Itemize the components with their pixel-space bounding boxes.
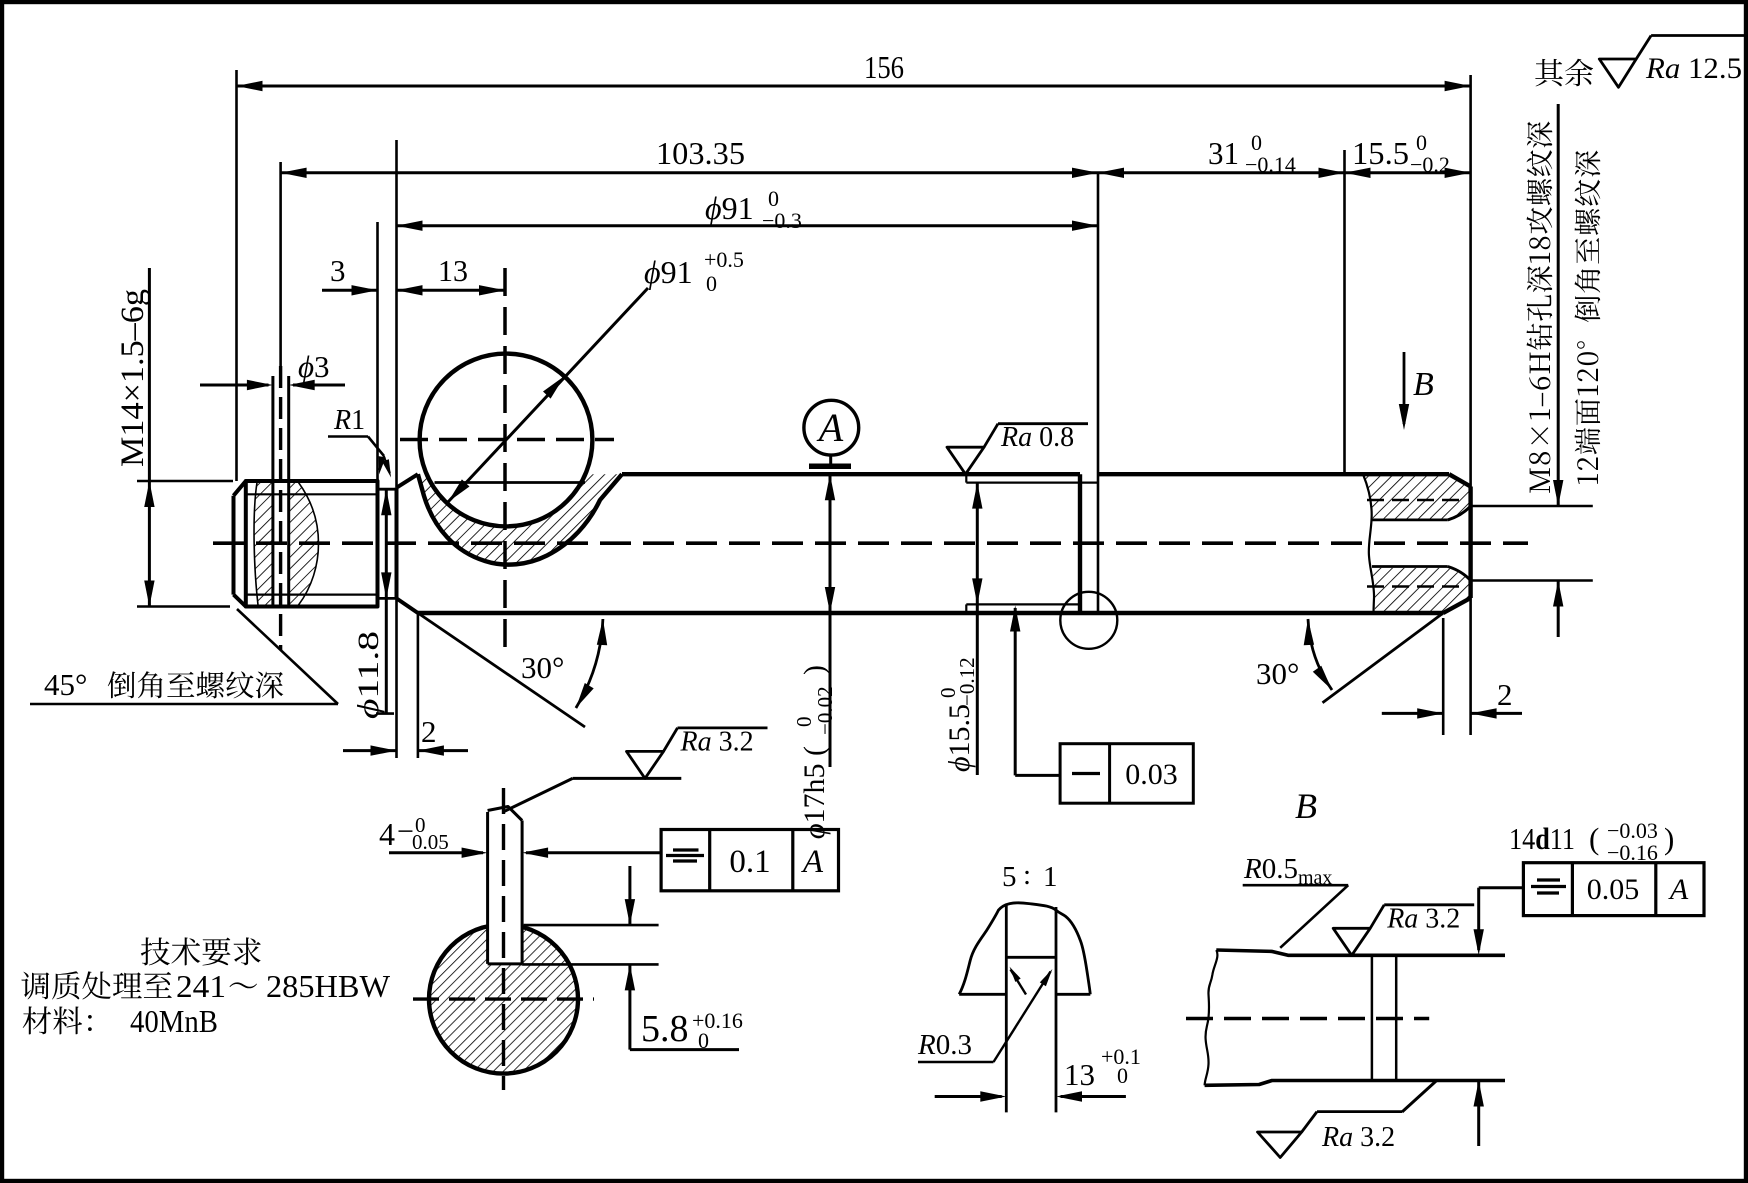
svg-text:14d11: 14d11	[1509, 821, 1575, 856]
pin slot top point	[488, 807, 522, 821]
surface Ra3.2 B top	[1333, 928, 1370, 955]
svg-text:5: 5	[1002, 861, 1017, 893]
svg-text:0.05: 0.05	[412, 830, 449, 854]
thread local section hatch right	[289, 483, 319, 606]
detail groove bottom	[1006, 956, 1056, 959]
countersink curve top	[1448, 506, 1471, 520]
countersink curve bottom	[1448, 567, 1471, 581]
M8 drill hole lines	[1372, 519, 1448, 522]
ball circle phi91	[420, 354, 593, 527]
svg-text:): )	[1664, 821, 1674, 856]
M8 section hatch top	[1364, 476, 1470, 519]
groove right wall / extension line 31	[1097, 173, 1100, 613]
svg-text:Ra 3.2: Ra 3.2	[1321, 1122, 1395, 1153]
leader straightness	[1015, 774, 1060, 777]
dim 12 countersink vertical	[1557, 104, 1560, 506]
dim 15.5 -0.2	[1345, 171, 1471, 174]
text tech requirements title	[141, 937, 261, 965]
M8 section hatch bottom	[1373, 568, 1469, 612]
ext lines dim 2 right	[1442, 618, 1445, 735]
svg-text:): )	[798, 665, 831, 675]
dim phi17h5	[829, 474, 832, 767]
pin detail horizontal centerline	[413, 997, 594, 1000]
note M8x1-6H vertical	[1527, 122, 1553, 493]
svg-text:A: A	[816, 405, 844, 450]
phi3 cross hole edges	[271, 376, 274, 607]
countersink ext lines	[1471, 505, 1593, 508]
dim 5.8 +0.16	[524, 924, 659, 927]
pin slot white	[488, 918, 521, 963]
phi3 hole centerline	[279, 366, 282, 650]
B view bottom edge	[1205, 1081, 1505, 1086]
view arrow B	[1403, 352, 1406, 424]
ext line phi3 center up	[279, 162, 282, 366]
dim phi15.5 -0.12	[976, 483, 979, 775]
30deg arc right	[1308, 619, 1332, 690]
shaft top edge left	[622, 472, 1080, 476]
svg-text:5.8: 5.8	[641, 1008, 689, 1050]
svg-text:B: B	[1413, 366, 1434, 403]
svg-text:Ra 0.8: Ra 0.8	[1000, 422, 1074, 453]
svg-text:0.03: 0.03	[1125, 758, 1178, 791]
svg-text:30°: 30°	[521, 650, 564, 685]
svg-text:2: 2	[421, 714, 437, 749]
svg-text:+0.5: +0.5	[704, 247, 744, 272]
ext lines dim 2 left	[395, 598, 398, 758]
svg-text:A: A	[1668, 873, 1689, 906]
pin detail vertical centerline	[502, 788, 505, 1090]
svg-text:Ra 12.5: Ra 12.5	[1645, 52, 1742, 85]
dim 14d11	[1477, 888, 1480, 950]
notch profile	[418, 474, 622, 564]
ext line thread end up	[376, 222, 379, 489]
detail mound bottom edges	[959, 993, 1006, 996]
shaft centerline	[213, 541, 1528, 545]
svg-text:−0.02: −0.02	[813, 686, 837, 735]
svg-text:3: 3	[330, 253, 346, 288]
relief groove	[378, 488, 397, 491]
seal section thin top line	[966, 482, 1098, 484]
symmetry frame 0.1 A	[661, 830, 838, 891]
shaft bottom edge	[418, 611, 1443, 615]
svg-text:40MnB: 40MnB	[130, 1003, 218, 1039]
svg-text:A: A	[801, 844, 824, 880]
svg-text:13: 13	[438, 253, 468, 288]
B view groove lines	[1371, 955, 1374, 1080]
detail balloon circle	[1060, 592, 1117, 649]
svg-text:ϕ91: ϕ91	[705, 190, 754, 226]
svg-text:1: 1	[1043, 861, 1058, 893]
svg-text:45°: 45°	[44, 667, 87, 702]
ball vertical centerline	[503, 268, 507, 658]
svg-text:ϕ11.8: ϕ11.8	[352, 631, 385, 719]
surface Ra3.2 pin	[503, 778, 573, 812]
leader phi91 +0.5	[448, 288, 648, 502]
svg-text:B: B	[1295, 786, 1317, 826]
svg-text:M14×1.5–6g: M14×1.5–6g	[115, 289, 151, 467]
svg-text:ϕ3: ϕ3	[298, 349, 330, 384]
ext line 156 left	[235, 70, 238, 481]
svg-text:Ra 3.2: Ra 3.2	[1386, 903, 1460, 934]
svg-text:156: 156	[864, 49, 904, 85]
pin section circle hatched	[429, 925, 578, 1074]
svg-text:Ra 3.2: Ra 3.2	[680, 726, 754, 757]
svg-text:0.05: 0.05	[1587, 873, 1640, 906]
dim 2 right	[1382, 712, 1443, 715]
thread minor diameter lines	[246, 493, 378, 495]
ext line right face up	[1469, 75, 1472, 487]
svg-text:(: (	[1589, 821, 1599, 856]
others roughness Ra12.5	[1535, 59, 1593, 87]
shoulder chamfer slopes	[397, 474, 418, 488]
detail groove walls	[1005, 905, 1008, 1112]
leader 45 chamfer	[237, 609, 338, 704]
pin slot walls	[486, 812, 489, 964]
svg-text:241: 241	[176, 968, 226, 1004]
surface Ra0.8	[947, 447, 984, 474]
svg-text:ϕ17h5 (: ϕ17h5 (	[798, 746, 831, 839]
notch back rim line	[435, 481, 586, 484]
dim phi91 -0.3	[397, 224, 1099, 227]
svg-text:30°: 30°	[1256, 656, 1299, 691]
B view centerline	[1186, 1017, 1429, 1020]
svg-text:−0.2: −0.2	[1410, 152, 1450, 177]
dim 4 -0.05	[389, 851, 483, 854]
seal section thin bottom line	[966, 603, 1080, 605]
svg-text:0.1: 0.1	[729, 844, 770, 880]
text material	[23, 1006, 92, 1034]
thread local section hatch left	[254, 483, 273, 606]
ext line shoulder up	[395, 140, 398, 488]
dim M14x1.5-6g	[137, 480, 233, 483]
end chamfer top	[1449, 474, 1471, 486]
end chamfer bottom	[1443, 598, 1470, 613]
dim 13 +0.1	[935, 1095, 1002, 1098]
dim 2 left	[343, 749, 397, 752]
svg-text:0: 0	[706, 271, 717, 296]
svg-text:0: 0	[698, 1028, 709, 1053]
svg-text:13: 13	[1064, 1057, 1095, 1092]
svg-text:4: 4	[379, 816, 395, 852]
30deg arc left	[576, 619, 603, 708]
svg-text:15.5: 15.5	[1352, 135, 1409, 171]
dim 3	[322, 289, 378, 292]
svg-text:−0.14: −0.14	[1245, 152, 1296, 177]
dim 103.35	[281, 171, 1098, 174]
B view top edge	[1216, 950, 1505, 955]
svg-text::: :	[1023, 859, 1031, 891]
30deg construction line left	[418, 613, 585, 727]
dim 31 -0.14	[1098, 171, 1345, 174]
straightness frame 0.03	[1060, 744, 1193, 804]
svg-text:−0.12: −0.12	[955, 657, 979, 706]
dim 156	[237, 85, 1471, 88]
ball seat notch hatch	[418, 474, 622, 564]
shaft end face	[1468, 487, 1472, 599]
svg-text:103.35: 103.35	[656, 135, 745, 171]
break line wavy	[1363, 474, 1374, 613]
surface Ra3.2 B bottom	[1402, 1081, 1436, 1112]
note 12 end face vertical	[1575, 151, 1601, 485]
symmetry frame 0.05 A	[1479, 886, 1524, 889]
svg-text:R0.3: R0.3	[917, 1029, 972, 1061]
svg-text:−0.3: −0.3	[762, 208, 802, 233]
svg-text:R1: R1	[333, 405, 365, 436]
svg-text:2: 2	[1497, 677, 1513, 712]
shaft top edge right	[1098, 472, 1449, 476]
svg-text:285HBW: 285HBW	[266, 968, 391, 1004]
30deg construction line right	[1323, 613, 1444, 703]
svg-text:ϕ15.5: ϕ15.5	[943, 704, 976, 772]
dim 13	[397, 289, 506, 292]
ball horizontal centerline	[400, 438, 614, 442]
dim phi3	[200, 384, 269, 387]
svg-text:ϕ91: ϕ91	[644, 254, 693, 290]
datum A symbol	[809, 464, 851, 470]
B view break line	[1205, 950, 1218, 1085]
svg-text:31: 31	[1208, 135, 1239, 171]
groove left wall	[1078, 474, 1082, 613]
dim phi11.8	[385, 489, 388, 713]
M8 thread depth dashed lines	[1367, 499, 1463, 502]
pin slot bottom	[488, 962, 522, 965]
ext line 15.5 step	[1343, 150, 1346, 474]
thread outline	[234, 481, 378, 607]
text heat treatment	[21, 971, 171, 999]
svg-text:0: 0	[1117, 1063, 1128, 1088]
detail mound outline	[959, 903, 1090, 994]
